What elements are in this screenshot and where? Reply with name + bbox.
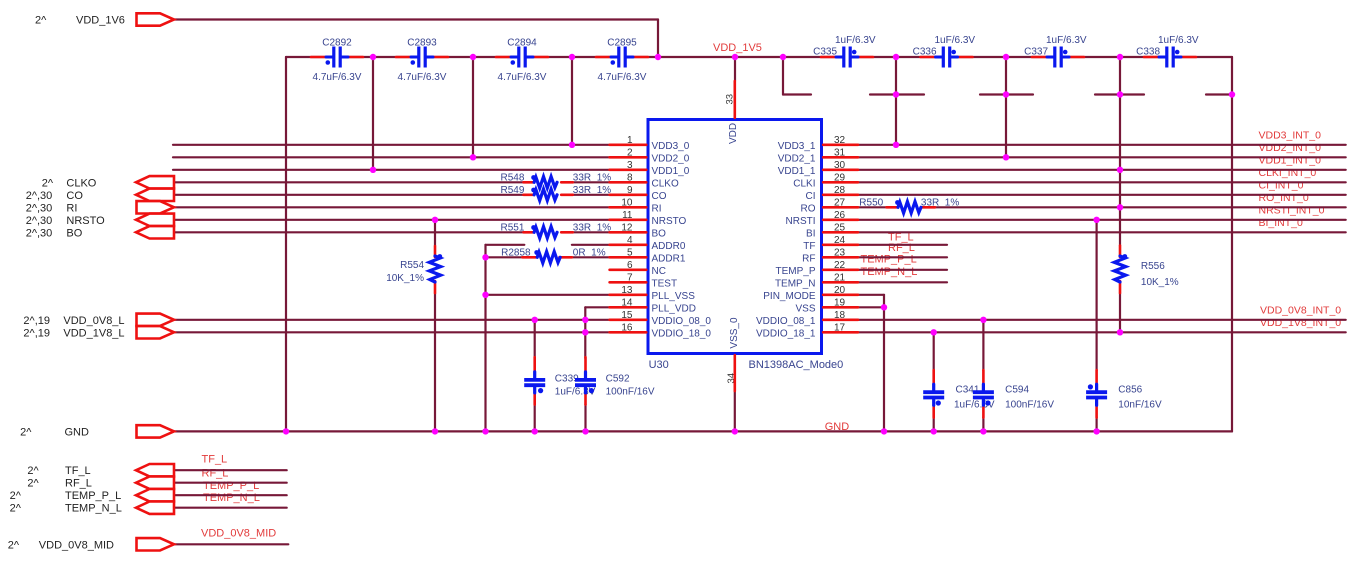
svg-text:RO: RO — [801, 203, 816, 214]
svg-text:NC: NC — [652, 266, 666, 277]
svg-text:2^,30: 2^,30 — [26, 202, 53, 214]
svg-text:VDD_1V8_L: VDD_1V8_L — [63, 327, 124, 339]
svg-text:4.7uF/6.3V: 4.7uF/6.3V — [498, 72, 547, 83]
svg-text:RI: RI — [66, 202, 77, 214]
svg-text:VDD: VDD — [728, 123, 739, 144]
svg-text:2^,30: 2^,30 — [26, 215, 53, 227]
svg-text:VDD3_0: VDD3_0 — [652, 141, 690, 152]
svg-text:ADDR1: ADDR1 — [652, 253, 686, 264]
svg-text:TF_L: TF_L — [65, 465, 91, 477]
svg-text:4.7uF/6.3V: 4.7uF/6.3V — [598, 72, 647, 83]
svg-text:BI: BI — [806, 228, 815, 239]
svg-text:TF_L: TF_L — [202, 454, 228, 466]
svg-text:CO: CO — [66, 190, 83, 202]
svg-text:2^: 2^ — [42, 177, 54, 189]
svg-text:C592: C592 — [606, 374, 630, 385]
svg-text:PLL_VSS: PLL_VSS — [652, 291, 696, 302]
svg-text:1uF/6.3V: 1uF/6.3V — [935, 35, 976, 46]
svg-text:VDD_1V5: VDD_1V5 — [713, 42, 762, 54]
svg-text:VDDIO_18_0: VDDIO_18_0 — [652, 328, 712, 339]
svg-text:NRSTO: NRSTO — [66, 215, 105, 227]
svg-text:2^: 2^ — [8, 539, 20, 551]
svg-text:GND: GND — [65, 426, 90, 438]
svg-text:TEMP_N: TEMP_N — [775, 278, 816, 289]
svg-text:VDDIO_08_0: VDDIO_08_0 — [652, 316, 712, 327]
svg-text:C856: C856 — [1118, 385, 1142, 396]
svg-text:BN1398AC_Mode0: BN1398AC_Mode0 — [749, 359, 844, 371]
svg-text:2^,19: 2^,19 — [23, 327, 50, 339]
svg-text:1uF/6.3V: 1uF/6.3V — [1158, 35, 1199, 46]
svg-text:TEMP_N_L: TEMP_N_L — [65, 503, 122, 515]
svg-text:PLL_VDD: PLL_VDD — [652, 303, 696, 314]
svg-text:CI: CI — [806, 191, 816, 202]
svg-text:RI: RI — [652, 203, 662, 214]
svg-text:VDDIO_08_1: VDDIO_08_1 — [756, 316, 816, 327]
svg-text:VDD_0V8_INT_0: VDD_0V8_INT_0 — [1260, 305, 1341, 317]
svg-text:2^: 2^ — [35, 15, 47, 27]
svg-text:2^: 2^ — [10, 503, 22, 515]
svg-text:4.7uF/6.3V: 4.7uF/6.3V — [398, 72, 447, 83]
svg-text:1uF/6.3V: 1uF/6.3V — [835, 35, 876, 46]
svg-text:2^: 2^ — [10, 490, 22, 502]
svg-text:4.7uF/6.3V: 4.7uF/6.3V — [313, 72, 362, 83]
svg-text:VDD1_0: VDD1_0 — [652, 166, 690, 177]
svg-text:TF: TF — [803, 241, 815, 252]
svg-text:VDD2_0: VDD2_0 — [652, 153, 690, 164]
svg-text:TEMP_P: TEMP_P — [775, 266, 815, 277]
svg-text:CO: CO — [652, 191, 667, 202]
svg-text:VSS_0: VSS_0 — [729, 317, 740, 349]
svg-text:TEMP_N_L: TEMP_N_L — [861, 266, 918, 278]
svg-text:VDD_0V8_L: VDD_0V8_L — [63, 315, 124, 327]
svg-text:CLKO: CLKO — [66, 177, 96, 189]
svg-text:U30: U30 — [649, 359, 669, 371]
svg-text:VDD_0V8_MID: VDD_0V8_MID — [39, 539, 114, 551]
svg-text:BO: BO — [652, 228, 667, 239]
svg-text:2^: 2^ — [27, 465, 39, 477]
svg-text:10K_1%: 10K_1% — [386, 273, 424, 284]
svg-text:TEMP_N_L: TEMP_N_L — [203, 492, 260, 504]
svg-text:VDD3_INT_0: VDD3_INT_0 — [1259, 130, 1322, 142]
svg-text:2^: 2^ — [20, 426, 32, 438]
svg-text:2^: 2^ — [27, 478, 39, 490]
svg-text:PIN_MODE: PIN_MODE — [763, 291, 816, 302]
svg-text:1uF/6.3V: 1uF/6.3V — [1046, 35, 1087, 46]
svg-text:2^,30: 2^,30 — [26, 227, 53, 239]
svg-text:RF_L: RF_L — [65, 478, 92, 490]
svg-text:C594: C594 — [1005, 385, 1029, 396]
svg-text:100nF/16V: 100nF/16V — [606, 387, 655, 398]
svg-text:TEST: TEST — [652, 278, 678, 289]
svg-text:CLKI: CLKI — [793, 178, 815, 189]
svg-text:RF: RF — [802, 253, 815, 264]
svg-text:NRSTI: NRSTI — [786, 216, 816, 227]
svg-text:100nF/16V: 100nF/16V — [1005, 400, 1054, 411]
svg-text:VDD1_1: VDD1_1 — [778, 166, 816, 177]
svg-text:TEMP_P_L: TEMP_P_L — [65, 490, 121, 502]
svg-text:TEMP_P_L: TEMP_P_L — [861, 254, 917, 266]
svg-text:VSS: VSS — [795, 303, 815, 314]
svg-text:10nF/16V: 10nF/16V — [1118, 400, 1162, 411]
svg-text:ADDR0: ADDR0 — [652, 241, 686, 252]
svg-text:NRSTO: NRSTO — [652, 216, 687, 227]
svg-text:VDD2_1: VDD2_1 — [778, 153, 816, 164]
svg-text:VDD_0V8_MID: VDD_0V8_MID — [201, 528, 276, 540]
svg-text:VDDIO_18_1: VDDIO_18_1 — [756, 328, 816, 339]
svg-text:CLKO: CLKO — [652, 178, 679, 189]
svg-text:VDD3_1: VDD3_1 — [778, 141, 816, 152]
svg-text:R556: R556 — [1141, 261, 1165, 272]
svg-text:BO: BO — [66, 227, 82, 239]
svg-text:R554: R554 — [400, 260, 424, 271]
svg-text:VDD_1V6: VDD_1V6 — [76, 15, 125, 27]
svg-text:TEMP_P_L: TEMP_P_L — [203, 480, 259, 492]
svg-text:2^,19: 2^,19 — [23, 315, 50, 327]
svg-text:10K_1%: 10K_1% — [1141, 277, 1179, 288]
svg-text:2^,30: 2^,30 — [26, 190, 53, 202]
